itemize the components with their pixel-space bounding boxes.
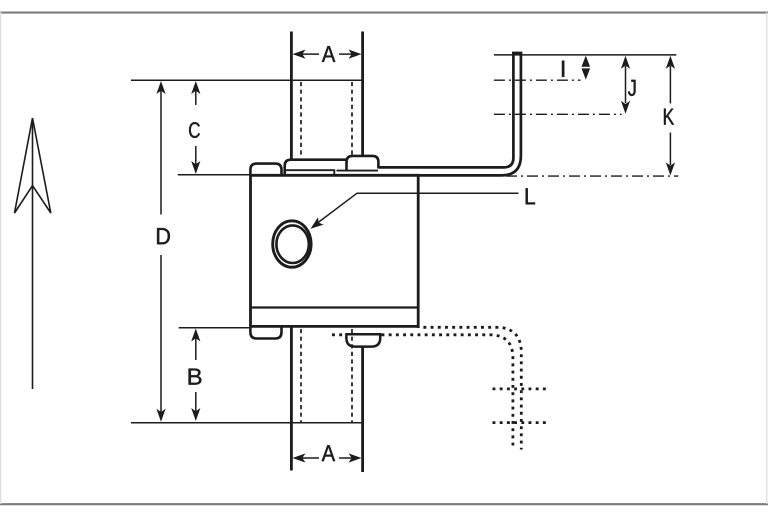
dim C/D extension line top <box>131 79 363 81</box>
dim K line <box>669 66 671 104</box>
arrowheads dim A bottom <box>293 453 306 462</box>
dash-dot line K level <box>506 175 678 177</box>
arrowheads dim C <box>191 81 200 94</box>
clamp saddle right bump <box>347 156 379 170</box>
label D <box>157 228 170 244</box>
dim B line <box>195 336 197 360</box>
pipe upper right outer line <box>361 32 364 158</box>
clamp saddle plate <box>285 160 347 176</box>
pipe upper right hidden line <box>351 82 353 157</box>
arrowheads dim A top <box>293 50 306 59</box>
pipe lower left outer line <box>290 327 293 471</box>
bottom rule <box>0 503 768 505</box>
arm inner surface <box>379 53 514 168</box>
label C <box>189 122 200 138</box>
dim D line <box>160 89 162 215</box>
pipe lower left hidden line <box>300 329 302 423</box>
clamp body bottom edge <box>249 325 418 328</box>
dim B top extension <box>179 327 250 329</box>
arrowheads dim D <box>156 81 165 94</box>
right top extension line <box>494 54 676 56</box>
dim C bottom extension <box>178 174 250 176</box>
dim A bottom line <box>302 457 319 459</box>
clamp body inner line <box>251 306 419 308</box>
phantom arm outer dotted <box>423 327 521 449</box>
clamp body outline <box>251 175 419 328</box>
dim B/D bottom extension <box>131 422 362 424</box>
phantom hole tick 1 <box>493 387 547 390</box>
pipe lower right hidden line <box>351 329 353 423</box>
leader line L <box>314 193 519 226</box>
dim J line <box>625 66 627 103</box>
label J <box>628 80 636 96</box>
clamp top-left tab <box>250 164 281 176</box>
dash-dot line I level <box>494 79 581 81</box>
right faint border <box>766 12 768 504</box>
label A bottom <box>322 445 335 461</box>
dim C line <box>195 89 197 105</box>
phantom arm inner dotted <box>332 335 513 450</box>
label A top <box>322 46 335 62</box>
left faint border <box>0 12 2 504</box>
label L <box>526 188 535 204</box>
dash-dot line J level <box>494 113 622 115</box>
label B <box>189 369 202 385</box>
clamp lower saddle bump <box>346 334 380 346</box>
arrowheads dim K <box>666 56 675 69</box>
label I <box>562 61 564 77</box>
pipe upper left hidden line <box>300 82 302 158</box>
clamp bottom-left tab <box>250 328 281 339</box>
flow-direction arrow shaft <box>32 118 34 389</box>
dim I diamond arrowheads <box>582 56 591 67</box>
arm outer surface <box>418 53 521 176</box>
label K <box>664 109 674 125</box>
hole inner ellipse <box>276 225 308 263</box>
pipe upper left outer line <box>290 32 293 160</box>
flow-direction arrowhead outline <box>15 118 51 213</box>
phantom hole tick 2 <box>493 421 547 424</box>
pipe lower right outer line <box>361 346 364 473</box>
arm tip cap <box>512 52 522 55</box>
arrowhead leader L <box>311 217 324 229</box>
clamp saddle plate under line <box>285 169 378 174</box>
arrowheads dim B <box>191 329 200 342</box>
dim A top line <box>302 53 319 55</box>
hole outer ellipse <box>273 221 311 267</box>
arrowheads dim J <box>621 56 630 69</box>
top rule <box>0 12 768 14</box>
